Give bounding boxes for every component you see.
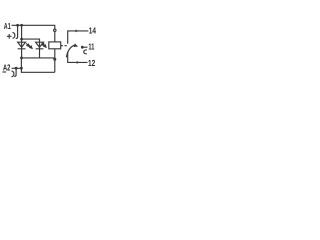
svg-text:12: 12 bbox=[88, 58, 95, 68]
svg-text:11: 11 bbox=[88, 41, 94, 51]
svg-text:A2: A2 bbox=[3, 62, 10, 72]
svg-text:A1: A1 bbox=[4, 21, 11, 31]
svg-text:14: 14 bbox=[89, 26, 96, 36]
